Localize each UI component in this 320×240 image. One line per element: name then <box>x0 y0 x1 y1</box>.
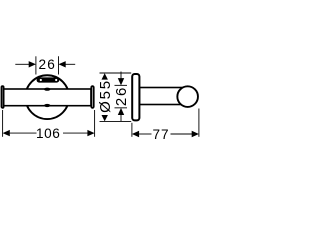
svg-text:77: 77 <box>153 127 170 142</box>
svg-text:26: 26 <box>113 86 130 106</box>
svg-text:Ø55: Ø55 <box>97 79 114 113</box>
svg-text:26: 26 <box>39 57 56 72</box>
svg-text:106: 106 <box>36 126 60 141</box>
